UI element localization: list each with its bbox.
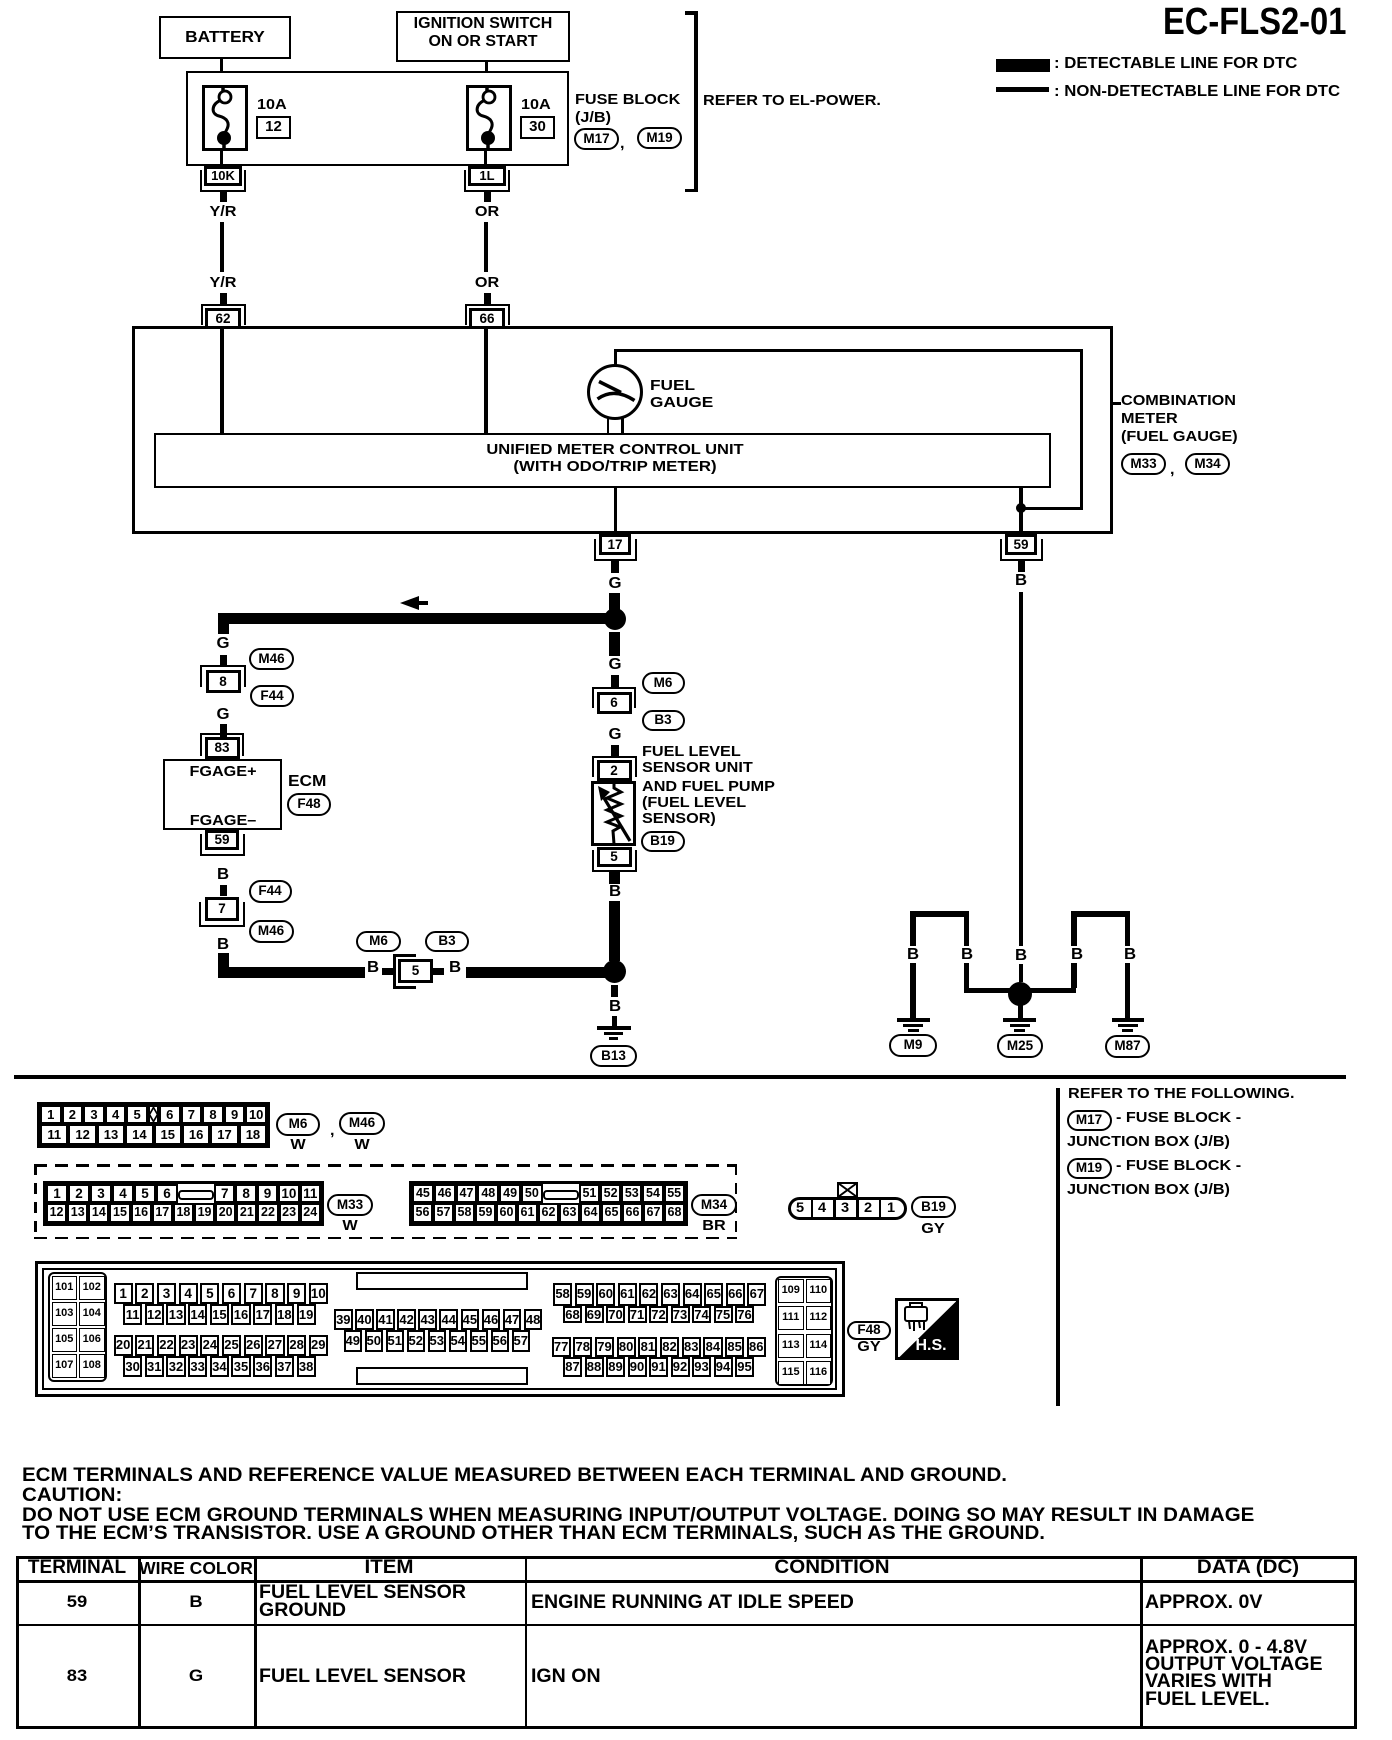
wire G junction to connector 6: [609, 632, 620, 656]
wire OR ignition column: [484, 192, 491, 202]
section separator line: [14, 1075, 1346, 1079]
right ground bridge: [1071, 911, 1130, 917]
wire 66 to control unit: [484, 329, 488, 433]
connector ref M33: [1121, 453, 1166, 475]
F48 bottom slot: [356, 1367, 528, 1386]
connector 83: [205, 737, 240, 759]
junction dot B-line: [603, 960, 626, 983]
ECM box: [163, 759, 282, 830]
refer-to bracket: [694, 11, 698, 192]
fuse 30: [466, 85, 512, 151]
connector ref M19: [637, 127, 682, 149]
reference value table: [16, 1556, 1357, 1729]
left branch thick wire down: [218, 613, 229, 634]
ECM terminals caption: [22, 1465, 1007, 1488]
fuse 12: [202, 85, 248, 151]
connector 8: [206, 670, 241, 693]
connector ref M34: [1185, 453, 1230, 475]
ground symbol M87: [1112, 1018, 1144, 1022]
connector ref M17 note: [1067, 1110, 1112, 1131]
connector ref M87: [1105, 1035, 1150, 1058]
connector ref M6: [642, 672, 685, 694]
wire Y/R battery column: [220, 192, 227, 202]
fuse rating box 12: [256, 116, 291, 139]
G stub below 17: [611, 561, 619, 573]
wire control unit to 59: [1019, 488, 1023, 534]
connector ref F44 lower: [249, 880, 292, 903]
refer-to-following vertical rule: [1056, 1088, 1060, 1406]
thick wire sensor to junction: [609, 901, 620, 961]
connector ref B3: [642, 710, 685, 731]
connector ref M19 note: [1067, 1158, 1112, 1179]
wire G connector 8 to 83: [217, 706, 229, 725]
connector ref B19: [641, 831, 685, 852]
connector 6: [597, 692, 632, 714]
connector grid M33: [43, 1181, 324, 1226]
F48 rows 77-95: [552, 1337, 769, 1358]
connector ref M9: [889, 1034, 937, 1057]
connector 62: [205, 308, 241, 330]
fuel level sensor body with variable resistor: [591, 781, 636, 846]
ignition switch box: [396, 11, 570, 62]
connector ref M6 mid: [356, 931, 401, 952]
connector 1L: [468, 166, 506, 186]
connector 59 meter: [1005, 534, 1037, 555]
connector B19 pinout: [837, 1182, 858, 1198]
combination meter labels: [1113, 402, 1121, 405]
connector 7: [205, 897, 239, 921]
wire battery to fuse: [220, 59, 224, 86]
connector ref M6 pinout: [276, 1113, 320, 1136]
B stub below meter 59: [1018, 561, 1025, 572]
sensor unit labels: [642, 743, 741, 761]
thick wire to junction: [466, 967, 615, 978]
wire control unit to 17: [614, 488, 618, 534]
connector ref M46 lower: [249, 920, 294, 943]
junction dot G-line: [604, 608, 626, 630]
junction dot grounds: [1008, 982, 1032, 1006]
junction node on meter wire: [1016, 503, 1026, 513]
legend detectable line: [996, 59, 1050, 72]
connector ref M33 pinout: [327, 1194, 373, 1216]
gauge loop wire: [614, 349, 617, 365]
gauge stem: [607, 417, 610, 433]
F48 right pin group 109-116: [775, 1276, 833, 1387]
ground symbol M25: [1018, 1004, 1023, 1018]
wire fuse 30 to 1L: [484, 151, 488, 167]
left ground bridge: [910, 911, 969, 917]
ECM connector F48 outer: [35, 1261, 845, 1397]
connector ref M34 pinout: [691, 1194, 737, 1216]
F48 rows 58-76: [553, 1283, 769, 1306]
connector ref M46 pinout: [339, 1112, 385, 1135]
connector ref B13: [590, 1045, 637, 1067]
connector grid M6/M46: [37, 1102, 270, 1148]
wire fuse 12 to 10K: [220, 151, 224, 167]
fuse rating box 30: [520, 116, 555, 139]
fuel gauge circle: [587, 364, 643, 420]
current direction arrow: [400, 595, 430, 611]
wire B below connector 7: [217, 936, 228, 955]
F48 top slot: [356, 1272, 528, 1290]
combination meter box: [132, 326, 1113, 534]
F48 rows 20-38: [114, 1335, 331, 1356]
ground symbol M9: [897, 1018, 930, 1022]
F48 rows 39-57: [334, 1309, 545, 1331]
fuse block (J/B) box: [186, 71, 569, 166]
connector ref B3 mid: [425, 931, 469, 952]
connector ref F48 pinout: [847, 1321, 891, 1340]
connector ref F44: [250, 685, 294, 707]
connector 17: [599, 534, 631, 555]
wire ignition to fuse: [485, 62, 489, 87]
title EC-FLS2-01: [1163, 0, 1346, 46]
wire B ECM 59 to connector 7: [217, 866, 228, 885]
fuel level sensor connector 2: [597, 760, 632, 781]
fuel level sensor connector 5: [597, 847, 632, 867]
connector 10K: [204, 166, 242, 186]
connector ref F48: [287, 793, 331, 816]
B stub below sensor: [609, 872, 620, 884]
dashed combination meter connector group: [34, 1164, 737, 1167]
thick wire ECM down and right: [218, 953, 229, 977]
B13 ground branch: [611, 985, 618, 997]
unified meter control unit box: [154, 433, 1051, 488]
connector grid M34: [409, 1181, 688, 1226]
connector ref B19 pinout: [911, 1196, 956, 1218]
connector ref M17: [574, 128, 619, 150]
H.S. harness side logo: [895, 1298, 959, 1360]
ECM branch: G label: [217, 635, 229, 654]
F48 left pin group 101-108: [48, 1272, 107, 1382]
wire 62 to control unit: [220, 329, 224, 433]
wire G connector 6 to sensor: [609, 726, 621, 745]
connector 66: [469, 308, 505, 330]
inline connector 5 (M6/B3): [393, 954, 416, 989]
battery box: [159, 16, 291, 59]
connector 59 ECM: [205, 830, 239, 850]
svg-text:H.S.: H.S.: [915, 1337, 946, 1354]
connector ref M25: [997, 1034, 1043, 1058]
ground symbol B13: [597, 1026, 631, 1030]
right spine top stub: [609, 593, 620, 613]
connector ref M46: [249, 648, 294, 670]
thick detectable line horizontal: [218, 613, 620, 624]
fuse block labels: [575, 91, 680, 109]
legend non-detectable line: [996, 87, 1049, 92]
long B wire down: [1019, 592, 1023, 946]
F48 rows 1-19: [114, 1283, 331, 1304]
